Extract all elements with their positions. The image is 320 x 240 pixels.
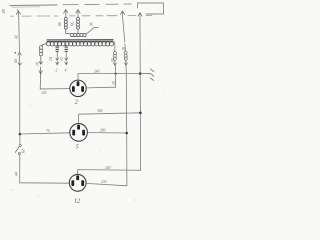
tube V1 envelope — [70, 80, 86, 96]
junction dot (V2 plate line / rail B) — [139, 112, 142, 115]
tube V3 electrodes — [71, 175, 84, 186]
svg-text:38: 38 — [122, 47, 126, 51]
numeral 5 under V2 — [76, 145, 79, 151]
shield line 1 (top, solid left part) — [10, 4, 57, 7]
label 42 — [14, 35, 19, 39]
svg-text:61: 61 — [22, 149, 26, 153]
svg-text:12: 12 — [74, 199, 80, 205]
numeral 2 under V1 — [75, 100, 78, 106]
svg-text:280: 280 — [100, 128, 106, 132]
svg-text:230: 230 — [101, 180, 107, 184]
coil L2 (vertical, under arrow 3) — [77, 17, 80, 34]
wire: V3 right lead to rail A corner — [86, 183, 127, 185]
label 64 — [13, 59, 18, 63]
label 10 — [111, 58, 115, 62]
svg-text:64: 64 — [13, 59, 18, 63]
antenna arrow 2 — [64, 10, 68, 17]
trimmer T2 (dark winding block) — [65, 46, 68, 51]
label 2 (tiny under T1) — [56, 69, 58, 73]
svg-text:42: 42 — [14, 35, 19, 39]
antenna arrow 5 — [138, 13, 142, 19]
label 38 (shield line numeral) — [1, 9, 6, 14]
trimmer T1 (dark winding block) — [56, 46, 59, 51]
label 140 (wire to V1 grid) — [41, 91, 47, 95]
right rail A (from antenna arrow 4 down) — [123, 17, 127, 186]
secondary coil L4 (main horizontal row) — [46, 42, 113, 46]
svg-text:140: 140 — [41, 91, 47, 95]
switch S1 lower contact — [18, 153, 20, 155]
wire: primary right lead diagonal — [86, 27, 98, 34]
tube V2 envelope — [70, 124, 88, 142]
label 12 — [60, 57, 64, 61]
svg-text:66: 66 — [70, 22, 74, 26]
junction dot (grid line / plate riser) — [115, 73, 117, 75]
svg-text:60: 60 — [58, 22, 62, 26]
coupling element arrows on left rail — [18, 52, 22, 65]
svg-text:140: 140 — [105, 166, 111, 170]
wire: left rail to V2 (grid) — [20, 133, 70, 134]
label 61 — [22, 149, 26, 153]
shield line 2 (dashed) — [11, 15, 152, 18]
svg-text:J8: J8 — [1, 9, 6, 14]
label 280 — [100, 128, 106, 132]
label 60 — [58, 22, 62, 26]
tube V1 grid line (horizontal y73.6) — [78, 73, 140, 75]
wire: bottom rail corner to tube V3 cathode — [20, 182, 70, 184]
tube V3 envelope — [69, 174, 86, 191]
shield line 1 second stroke — [12, 6, 40, 8]
numeral 12 under V3 — [74, 199, 80, 205]
label 10x — [112, 81, 116, 85]
junction dot (left rail to tube V2 grid line) — [19, 133, 22, 136]
svg-text:18: 18 — [112, 81, 116, 85]
tube V1 electrodes — [72, 81, 84, 92]
switch S1 upper contact — [19, 144, 21, 146]
svg-text:70: 70 — [46, 129, 50, 133]
label 4 (tiny under T2) — [65, 69, 67, 73]
svg-text:14: 14 — [49, 57, 53, 61]
label 66 — [70, 22, 74, 26]
coil L7 (on right rail A) — [124, 51, 127, 65]
label 230 — [101, 180, 107, 184]
label 44 — [13, 172, 18, 176]
svg-text:5: 5 — [76, 145, 79, 151]
tube V1 grid lead up — [77, 74, 79, 81]
label 340 — [97, 109, 103, 113]
antenna arrow 4 — [120, 11, 124, 17]
coil L5 (left end vertical with arrows) — [39, 43, 70, 89]
ink dot near label 64 — [15, 52, 17, 54]
transformer core (double line) — [47, 40, 113, 42]
svg-text:2: 2 — [75, 100, 78, 106]
wire: secondary right end down — [113, 41, 115, 51]
right rail B (from antenna arrow 5 down) — [139, 19, 142, 171]
left rail (vertical from antenna arrow 1 to bottom corner) — [19, 17, 20, 183]
svg-text:240: 240 — [94, 69, 100, 73]
label 14 — [49, 57, 53, 61]
wire: V3 top lead to rail B corner — [78, 170, 141, 175]
junction dot (grid line / rail B) — [139, 72, 142, 75]
coil L6 (right end vertical) — [113, 52, 116, 66]
svg-text:2: 2 — [56, 69, 58, 73]
svg-text:44: 44 — [13, 172, 18, 176]
tube V2 electrodes — [72, 125, 85, 136]
label 740 — [105, 166, 111, 170]
svg-text:16: 16 — [36, 62, 40, 66]
trimmer T1 arrows — [56, 45, 59, 65]
numeral 77 strokes at right — [140, 69, 154, 81]
switch S1 blade — [15, 147, 19, 153]
scan speckles — [8, 45, 166, 206]
svg-text:340: 340 — [97, 109, 103, 113]
label 16 — [36, 62, 40, 66]
antenna arrow 3 — [76, 10, 80, 17]
box at top right — [138, 3, 164, 14]
junction dot (V2 lead / rail A) — [125, 132, 128, 135]
wire: V1 plate riser — [86, 66, 115, 88]
svg-text:36: 36 — [89, 22, 93, 26]
primary coil L3 (small horizontal) — [71, 33, 87, 36]
shield line 1 dashed continuation — [63, 3, 131, 6]
wire: V2 right lead to rail A — [88, 132, 127, 134]
label 240 — [94, 69, 100, 73]
coil L1 (vertical, under arrow 2) — [64, 17, 70, 34]
label 36 — [89, 22, 93, 26]
svg-text:10: 10 — [111, 58, 115, 62]
label 38b — [122, 47, 126, 51]
svg-text:12: 12 — [60, 57, 64, 61]
tube V2 top lead and line to rail B — [79, 113, 141, 124]
label 70 — [46, 129, 50, 133]
svg-text:4: 4 — [65, 69, 67, 73]
antenna arrow 1 — [16, 9, 20, 16]
trimmer T2 arrows — [65, 45, 68, 65]
